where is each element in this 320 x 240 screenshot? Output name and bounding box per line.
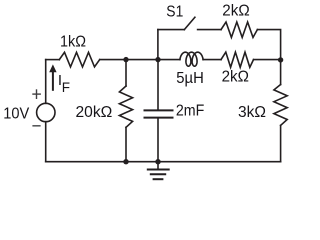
svg-text:2kΩ: 2kΩ xyxy=(222,69,249,86)
svg-text:10V: 10V xyxy=(3,105,29,122)
wire middle 2k to right node xyxy=(254,59,281,61)
wire capacitor branch bottom lead xyxy=(157,119,159,162)
svg-text:F: F xyxy=(62,80,70,95)
inductor L 5uH coil xyxy=(180,52,203,66)
voltage source V1 circle xyxy=(37,103,55,121)
wire top-left horizontal lead into 1k resistor xyxy=(46,59,60,61)
current arrow IF shaft and head xyxy=(52,72,54,91)
svg-text:1kΩ: 1kΩ xyxy=(60,33,86,50)
ground symbol bar 3 xyxy=(154,178,163,180)
node junction dot E (bottom of capacitor / ground) xyxy=(155,159,160,164)
wire switch branch riser xyxy=(157,30,159,60)
svg-text:20kΩ: 20kΩ xyxy=(76,104,113,121)
wire 20k branch top lead xyxy=(125,60,127,86)
wire bottom rail xyxy=(46,161,281,163)
capacitor C 2mF top plate xyxy=(145,109,173,111)
wire switch left contact xyxy=(158,29,184,31)
ground symbol stem xyxy=(157,162,159,169)
node junction dot B (top of capacitor / switch riser) xyxy=(155,57,160,62)
wire inductor to middle 2k resistor xyxy=(203,59,221,61)
wire right vertical below 3k to bottom rail xyxy=(280,125,282,161)
wire switch right contact to 2k top xyxy=(198,29,221,31)
resistor R 2kOhm middle zigzag xyxy=(221,52,254,67)
switch S1 blade (open) xyxy=(184,17,195,29)
wire main horizontal node line (1k output to inductor) xyxy=(100,59,180,61)
resistor R 20kOhm zigzag xyxy=(119,86,132,127)
wire top branch to top-right corner and down xyxy=(257,30,280,60)
svg-text:2mF: 2mF xyxy=(176,103,205,120)
ground symbol bar 1 xyxy=(148,169,169,171)
svg-text:3kΩ: 3kΩ xyxy=(238,104,266,121)
wire left vertical bottom (source to bottom rail) xyxy=(45,122,47,162)
minus sign of source xyxy=(32,125,40,127)
node junction dot A (top of 20k) xyxy=(123,57,128,62)
resistor R 3kOhm zigzag xyxy=(274,85,287,126)
ground symbol bar 2 xyxy=(151,173,165,175)
wire left vertical top (source to top-left corner) xyxy=(45,60,47,104)
resistor R 1kOhm zigzag xyxy=(59,52,99,67)
wire 20k branch bottom lead xyxy=(125,127,127,161)
plus sign of source xyxy=(32,89,41,99)
wire right vertical node to 3k resistor xyxy=(280,60,282,85)
wire capacitor branch top lead xyxy=(157,60,159,110)
capacitor C 2mF bottom plate xyxy=(145,117,173,119)
node junction dot C (right node) xyxy=(278,57,283,62)
node junction dot D (bottom of 20k) xyxy=(123,159,128,164)
svg-text:2kΩ: 2kΩ xyxy=(222,3,249,20)
svg-text:S1: S1 xyxy=(166,3,183,20)
svg-text:5µH: 5µH xyxy=(176,70,204,87)
resistor R 2kOhm top zigzag xyxy=(221,22,257,37)
